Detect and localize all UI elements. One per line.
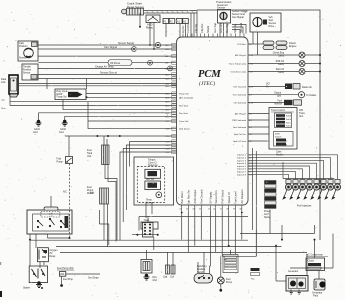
svg-text:Gnd: Gnd bbox=[264, 214, 269, 216]
svg-text:Lo: Lo bbox=[285, 140, 288, 142]
svg-text:Duty Cycle: Duty Cycle bbox=[57, 90, 69, 93]
wire lamp to rail bbox=[305, 63, 320, 65]
junction bbox=[228, 245, 230, 247]
fuel injector INJ4 bbox=[311, 180, 320, 200]
fuel injector INJ7 bbox=[290, 180, 299, 200]
svg-text:Run: Run bbox=[2, 108, 7, 110]
TPS connector bbox=[31, 75, 37, 80]
wire injector 6 bbox=[248, 169, 303, 179]
inertia switch contact bbox=[67, 158, 72, 162]
svg-text:Generator: Generator bbox=[312, 292, 323, 295]
purge solenoid coil bbox=[68, 92, 78, 97]
wire governor 3 bbox=[226, 23, 228, 37]
PCM top pin 9 bbox=[230, 34, 232, 38]
svg-text:Sensor: Sensor bbox=[23, 72, 31, 75]
wire to ground G101 bbox=[38, 113, 40, 121]
svg-text:Drive: Drive bbox=[269, 25, 275, 28]
wire ocm 3 bbox=[248, 126, 269, 128]
wire injector 2 bbox=[248, 158, 331, 179]
generator B1 bbox=[286, 276, 308, 292]
svg-text:Oxygen: Oxygen bbox=[50, 250, 59, 252]
vehicle speed sensor box bbox=[250, 13, 281, 32]
svg-text:F1: F1 bbox=[164, 20, 167, 23]
ground G103 bbox=[36, 281, 42, 287]
wire purge drive bbox=[86, 93, 177, 95]
wire branch corner bbox=[99, 224, 108, 245]
wire fuel pump dashed feed bbox=[69, 164, 71, 239]
svg-text:A25: A25 bbox=[166, 85, 171, 88]
svg-text:Ign Run Sw: Ign Run Sw bbox=[187, 190, 191, 204]
svg-text:Dist: Dist bbox=[153, 276, 157, 279]
svg-text:F2: F2 bbox=[170, 20, 173, 23]
wire trans temp a bbox=[145, 203, 147, 219]
PDC top tab bbox=[44, 207, 58, 210]
wire cam signal bbox=[38, 48, 177, 50]
wire fuse out bbox=[66, 273, 100, 275]
junction coil right bbox=[157, 234, 159, 236]
thermistor dot bbox=[158, 194, 160, 196]
speed sensor pickup bbox=[263, 20, 267, 25]
PCM left pin box C19 bbox=[172, 143, 177, 146]
ground G102 bbox=[62, 120, 68, 126]
fuse F9 20A bbox=[59, 272, 65, 277]
wire ocm 5 bbox=[248, 140, 269, 142]
svg-text:Trans: Trans bbox=[299, 112, 306, 115]
svg-text:Ign: Ign bbox=[224, 259, 227, 261]
PCM left pin box A17 bbox=[172, 43, 177, 46]
svg-text:Unit: Unit bbox=[299, 115, 303, 118]
splice junction block bbox=[265, 181, 277, 209]
wire pdc top feed bbox=[50, 196, 52, 207]
wire data bus bbox=[248, 43, 263, 45]
svg-text:Injector 2: Injector 2 bbox=[237, 157, 247, 160]
ocm solenoid Sol B bbox=[276, 118, 285, 121]
fuel injector INJ6 bbox=[297, 180, 306, 200]
PCM left pin box A24 bbox=[172, 82, 177, 85]
svg-text:A11: A11 bbox=[166, 109, 171, 112]
svg-text:Sol C: Sol C bbox=[286, 122, 291, 124]
svg-text:Trans Control: Trans Control bbox=[271, 109, 285, 112]
wire rail asd bbox=[56, 246, 282, 248]
connector C114 half A bbox=[177, 19, 183, 24]
svg-text:Link: Link bbox=[1, 81, 6, 84]
svg-text:Pwr Gnd: Pwr Gnd bbox=[179, 112, 188, 115]
fuel injector INJ3 bbox=[318, 180, 327, 200]
svg-text:Check Eng: Check Eng bbox=[273, 53, 285, 55]
wire pump ground bbox=[220, 284, 222, 289]
speed sensor shaft bbox=[257, 17, 259, 26]
ignition coil pack connector bbox=[143, 223, 154, 238]
svg-text:Gov Sig: Gov Sig bbox=[225, 23, 229, 33]
junction fuel feed c bbox=[119, 135, 121, 137]
wire pdc left down bbox=[29, 234, 31, 266]
wire o2 down b bbox=[43, 262, 45, 265]
svg-text:Sensor Supply: Sensor Supply bbox=[118, 42, 135, 45]
camshaft sync pickup bbox=[141, 260, 152, 274]
svg-text:Injector 6: Injector 6 bbox=[237, 168, 247, 171]
svg-text:Engine: Engine bbox=[289, 45, 297, 48]
governor sensor diaphragm bbox=[220, 12, 227, 19]
PCM top pin 8 bbox=[217, 34, 219, 38]
connector C114 half B bbox=[183, 19, 189, 24]
PCM left pin box B12 bbox=[172, 115, 177, 118]
svg-text:Output: Output bbox=[274, 92, 281, 95]
svg-text:Sensor Ground: Sensor Ground bbox=[100, 72, 118, 75]
wire cam ground bbox=[38, 55, 177, 57]
svg-text:A1: A1 bbox=[177, 20, 181, 23]
svg-text:Purge Sol: Purge Sol bbox=[179, 93, 189, 96]
svg-text:Gnd Strap: Gnd Strap bbox=[88, 277, 99, 280]
PCM top pin 5 bbox=[204, 34, 206, 38]
wire lamp to rail bbox=[305, 71, 320, 73]
PCM bottom pin bbox=[194, 205, 196, 212]
indicator lamp Shift Ind bbox=[299, 61, 305, 67]
svg-text:Coil Drv: Coil Drv bbox=[186, 23, 190, 33]
power distribution center PDC bbox=[27, 210, 72, 234]
svg-text:A2: A2 bbox=[183, 20, 187, 23]
wire ASD out 1 bbox=[149, 23, 151, 46]
PCM top pin 11 bbox=[239, 34, 241, 38]
wire branch vertical bbox=[87, 102, 89, 129]
output speed sensor bbox=[141, 222, 158, 229]
svg-text:Throttle: Throttle bbox=[23, 66, 32, 69]
PCM left pin box A22 bbox=[172, 73, 177, 76]
inline connector C4 bbox=[168, 66, 173, 71]
svg-text:Speed Ctl: Speed Ctl bbox=[227, 192, 231, 204]
svg-text:(JTEC): (JTEC) bbox=[199, 80, 215, 87]
junction splice S1 bbox=[139, 26, 141, 28]
stub bbox=[29, 239, 31, 241]
svg-text:(A/C Damped): (A/C Damped) bbox=[179, 96, 193, 99]
svg-text:Monitor: Monitor bbox=[274, 102, 282, 105]
svg-text:Oil Press: Oil Press bbox=[110, 62, 121, 65]
svg-text:PRD Solenoid: PRD Solenoid bbox=[232, 120, 247, 122]
battery ground marks bbox=[290, 290, 301, 295]
ac clutch coil bbox=[308, 263, 321, 266]
svg-text:A22: A22 bbox=[166, 73, 171, 76]
wire 5v supply bbox=[210, 212, 212, 263]
wire injector 1 bbox=[248, 155, 338, 179]
svg-text:Gov Sup: Gov Sup bbox=[213, 22, 217, 33]
PCM left pin box C27 bbox=[172, 119, 177, 122]
wire governor supply route bbox=[232, 12, 246, 34]
ocm switch b bbox=[276, 143, 286, 146]
overdrive solenoid L2 bbox=[145, 181, 161, 190]
bus connector pills bbox=[263, 41, 287, 49]
svg-text:Purge Sol: Purge Sol bbox=[57, 96, 68, 99]
PCM left pin box A21 bbox=[172, 67, 177, 70]
wire run start bbox=[10, 105, 177, 107]
svg-text:Spd Gnd: Spd Gnd bbox=[239, 22, 243, 33]
wire pnp c bbox=[210, 262, 211, 274]
TCC solenoid coil bbox=[148, 171, 158, 176]
wire label oil pressure pill bbox=[108, 60, 132, 66]
fuel pump motor brushes bbox=[219, 279, 224, 283]
wire injector 3 bbox=[248, 160, 324, 179]
svg-text:Case: Case bbox=[276, 152, 282, 154]
scan edge smudge left bbox=[0, 291, 2, 297]
junction coil left bbox=[136, 234, 138, 236]
svg-text:Injector 5: Injector 5 bbox=[237, 165, 247, 168]
PCM top pin 1 bbox=[182, 34, 184, 38]
svg-text:Ign: Ign bbox=[2, 100, 6, 102]
junction purge bbox=[86, 96, 88, 98]
svg-text:5V Supply: 5V Supply bbox=[209, 191, 213, 204]
PCM bottom pin bbox=[210, 205, 212, 212]
transmission solenoid pack boundary bbox=[137, 167, 164, 203]
junction starter bbox=[41, 287, 43, 289]
svg-text:ASD Output: ASD Output bbox=[193, 189, 197, 203]
PCM bottom pin bbox=[234, 205, 236, 212]
svg-text:OD Solenoid: OD Solenoid bbox=[234, 102, 247, 104]
wire oil pressure bbox=[38, 62, 177, 64]
svg-text:Temp: Temp bbox=[146, 200, 152, 202]
svg-text:Injector 7: Injector 7 bbox=[237, 171, 247, 174]
ocm switch block bbox=[274, 132, 294, 147]
PCM bottom pin bbox=[187, 205, 189, 212]
junction rail batt left bbox=[29, 239, 31, 241]
svg-text:SCI: SCI bbox=[266, 84, 270, 86]
tachometer output port bbox=[298, 92, 304, 98]
svg-text:A19: A19 bbox=[166, 101, 171, 104]
wire injector 7 bbox=[248, 172, 296, 179]
svg-text:Ckp Sig: Ckp Sig bbox=[194, 23, 198, 33]
sci connector bbox=[285, 84, 292, 90]
junction lamp rail bbox=[319, 63, 321, 65]
wire trans temp b bbox=[151, 203, 153, 215]
svg-text:CCD Bus: CCD Bus bbox=[237, 44, 247, 46]
svg-text:Injector 1: Injector 1 bbox=[237, 154, 247, 157]
wire injector supply rail bbox=[283, 162, 335, 179]
svg-text:Cap: Cap bbox=[163, 277, 168, 279]
svg-text:Fuel: Fuel bbox=[278, 101, 283, 103]
cam sensor rotor bbox=[24, 48, 34, 58]
wire ign run bbox=[187, 212, 189, 253]
wire speed sensor ground bbox=[252, 32, 254, 44]
wire asd out bbox=[194, 212, 196, 246]
wire tach out bbox=[248, 94, 298, 96]
PCM left pin box A23 bbox=[172, 77, 177, 80]
wire r2 stub bbox=[281, 225, 283, 240]
wire to battery top bbox=[290, 267, 333, 269]
governor sensor stem bbox=[223, 12, 225, 19]
wire air temp bbox=[38, 67, 177, 69]
wire trans row 1 bbox=[88, 120, 177, 122]
svg-text:TCC Solenoid: TCC Solenoid bbox=[232, 95, 246, 97]
svg-text:Batt Direct: Batt Direct bbox=[180, 191, 184, 203]
PDC inner frame bbox=[33, 214, 70, 231]
wire sci tx bbox=[18, 83, 177, 85]
wire DLC down bbox=[9, 94, 11, 106]
svg-text:To Cluster: To Cluster bbox=[306, 94, 317, 97]
wire right down bbox=[332, 234, 334, 269]
wire battery feed bbox=[275, 246, 277, 281]
svg-text:Fuel Level: Fuel Level bbox=[234, 191, 238, 203]
wire ocm 1 bbox=[248, 113, 269, 115]
PCM left pin box A25 bbox=[172, 84, 177, 87]
PCM left pin box C28 bbox=[172, 127, 177, 130]
crankshaft sensor connector bbox=[127, 8, 144, 15]
inertia switch S2 bbox=[66, 157, 73, 164]
speed sensor rotor bbox=[253, 17, 262, 26]
junction r2 bbox=[281, 239, 283, 241]
svg-text:Spd: Spd bbox=[277, 95, 282, 97]
svg-text:Cam Signal: Cam Signal bbox=[104, 46, 117, 49]
wire o2 down a bbox=[39, 262, 41, 268]
wire generator pos bbox=[276, 280, 286, 282]
svg-text:Unit: Unit bbox=[87, 155, 92, 158]
junction asd 2 bbox=[153, 48, 155, 50]
wire crank return bbox=[193, 13, 195, 37]
wire od switch bbox=[248, 102, 284, 104]
svg-text:20A: 20A bbox=[60, 273, 65, 276]
connector C113 half B bbox=[169, 19, 175, 24]
wire coil feed bbox=[147, 217, 149, 223]
wire injector 8 bbox=[248, 174, 289, 179]
svg-text:Clutch: Clutch bbox=[308, 260, 315, 263]
starter motor relay K3 bbox=[29, 266, 47, 283]
svg-text:Run: Run bbox=[251, 279, 255, 281]
PCM left pin box A14 bbox=[172, 92, 177, 95]
wire loop over purge box bbox=[47, 79, 87, 90]
svg-text:Spd Ctrl Vac: Spd Ctrl Vac bbox=[234, 133, 247, 136]
PCM top pin 6 bbox=[208, 34, 210, 38]
svg-text:PCM: PCM bbox=[198, 69, 221, 80]
svg-text:Shield: Shield bbox=[206, 25, 210, 33]
wire bottom feed corner bbox=[139, 217, 248, 231]
svg-text:A23: A23 bbox=[166, 78, 171, 81]
junction fuel feed a bbox=[96, 135, 98, 137]
indicator lamp Check Eng bbox=[299, 52, 305, 58]
svg-text:Overdrive Lamp: Overdrive Lamp bbox=[230, 70, 246, 73]
wire splice down bbox=[269, 210, 271, 234]
wire from C114 bbox=[179, 24, 181, 38]
throttle position sensor TPS bbox=[22, 64, 38, 80]
junction bbox=[301, 94, 303, 96]
wire branch a bbox=[98, 210, 100, 224]
wire coil drop bbox=[153, 237, 155, 250]
junction fuel feed b bbox=[107, 135, 109, 137]
PCM left pin box A18 bbox=[172, 47, 177, 50]
svg-text:Shift Ind: Shift Ind bbox=[276, 60, 285, 63]
wire sender feed bbox=[103, 136, 105, 145]
wire pnp bbox=[221, 212, 223, 257]
ground G101 bbox=[36, 120, 42, 126]
svg-text:A9: A9 bbox=[166, 62, 169, 65]
ocm relay block bbox=[275, 113, 292, 128]
svg-text:Position: Position bbox=[19, 45, 28, 48]
wire pdc out left bbox=[35, 234, 37, 248]
junction lamp rail bbox=[319, 54, 321, 56]
PCM left pin box A16 bbox=[172, 96, 177, 99]
wire batt direct bbox=[181, 212, 183, 240]
svg-text:Fuel Pmp: Fuel Pmp bbox=[63, 279, 74, 281]
oxygen sensor heater relay K2 bbox=[37, 248, 48, 262]
PCM bottom pin bbox=[241, 205, 243, 212]
PCM top pin 3 bbox=[191, 34, 193, 38]
svg-text:Pwr Ground: Pwr Ground bbox=[200, 189, 204, 203]
ignition switch feed marks bbox=[251, 268, 260, 281]
svg-text:Gov Signal: Gov Signal bbox=[232, 16, 244, 19]
PCM bottom pin bbox=[215, 205, 217, 212]
wire signal ground bbox=[65, 115, 177, 117]
wire ASD out 2 bbox=[153, 23, 155, 50]
svg-text:Position: Position bbox=[23, 69, 32, 72]
PCM U1 (JTEC) module outline bbox=[177, 37, 249, 205]
wire tps bbox=[38, 73, 177, 75]
trans temp thermistor RT1 bbox=[156, 192, 162, 198]
od connector bbox=[284, 100, 293, 105]
wire pnp route bbox=[222, 230, 256, 256]
wire gen field bbox=[318, 271, 320, 280]
wire fuel pump feed bbox=[65, 135, 177, 137]
wire pnp a bbox=[197, 262, 199, 274]
svg-text:Htr: Htr bbox=[50, 252, 53, 255]
svg-text:Trans Sol: Trans Sol bbox=[179, 120, 189, 123]
wire pdc out mid bbox=[47, 234, 49, 238]
svg-text:Batt: Batt bbox=[90, 192, 94, 195]
svg-text:Fuel Injectors: Fuel Injectors bbox=[297, 205, 312, 208]
svg-text:Sensor: Sensor bbox=[217, 6, 225, 10]
wire sensor return bbox=[215, 212, 217, 253]
svg-text:AC Request: AC Request bbox=[240, 189, 244, 203]
svg-text:Run Start: Run Start bbox=[179, 105, 189, 108]
svg-text:Switch: Switch bbox=[275, 135, 282, 138]
wire to ASD splice bbox=[139, 13, 141, 27]
svg-text:Injector 8: Injector 8 bbox=[237, 173, 247, 176]
wire crank shield bbox=[196, 11, 198, 37]
ocm solenoid Sol C bbox=[276, 121, 285, 124]
wire trans row 2 bbox=[88, 128, 177, 130]
wire crank signal bbox=[190, 13, 192, 37]
junction bbox=[314, 239, 316, 241]
svg-text:SCI Transmit: SCI Transmit bbox=[233, 85, 246, 88]
PCM left pin box A19 bbox=[172, 100, 177, 103]
ground G104 bbox=[144, 274, 150, 280]
ocm solenoid Sol A bbox=[276, 114, 285, 117]
svg-text:Sol D: Sol D bbox=[286, 126, 291, 128]
pump ground dot bbox=[219, 289, 222, 292]
svg-text:Sol B: Sol B bbox=[286, 119, 291, 121]
wire lamp to rail bbox=[305, 54, 320, 56]
PCM left pin box A10 bbox=[172, 104, 177, 107]
svg-text:Sensor: Sensor bbox=[19, 57, 27, 60]
fuel pump motor M1 bbox=[100, 188, 109, 204]
park neutral position switch S3 bbox=[194, 274, 213, 284]
fuel injector INJ1 bbox=[332, 180, 341, 200]
indicator lamp Spd Ctrl bbox=[299, 69, 305, 75]
wire pump feed bbox=[220, 256, 222, 277]
wire Spd Ctrl bbox=[248, 71, 299, 73]
wire purge supply bbox=[86, 96, 177, 98]
junction pump feed bbox=[69, 237, 71, 239]
svg-text:O/D: O/D bbox=[299, 110, 303, 112]
ground dot bbox=[60, 284, 63, 287]
ASD relay contact bbox=[148, 16, 159, 21]
wire pdc to pump dashed joint bbox=[48, 237, 70, 239]
connector C113 half A bbox=[163, 19, 169, 24]
PDC fuse F5 bbox=[41, 212, 50, 218]
wire ocm 2 bbox=[248, 119, 269, 121]
wire trans corner row 6 bbox=[120, 152, 177, 240]
wire rail ign bbox=[60, 251, 307, 253]
inline connector C1 bbox=[155, 42, 160, 47]
svg-text:Field: Field bbox=[313, 295, 319, 297]
O2 relay contact set bbox=[39, 250, 46, 260]
wire Check Eng bbox=[248, 54, 299, 56]
fuel injector INJ5 bbox=[304, 180, 313, 200]
data link connector J1 bbox=[9, 75, 18, 94]
